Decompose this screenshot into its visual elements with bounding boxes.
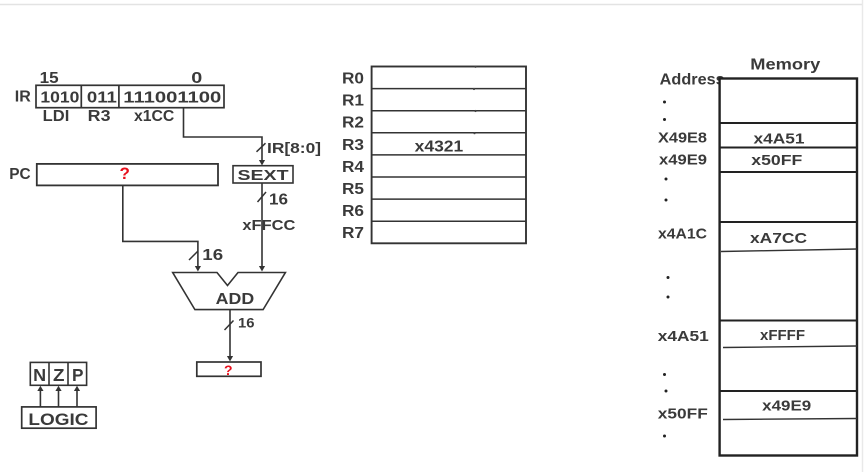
svg-text:R3: R3	[342, 137, 364, 154]
svg-text:R2: R2	[342, 115, 364, 132]
svg-text:X49E8: X49E8	[658, 130, 707, 147]
svg-text:P: P	[72, 365, 84, 385]
svg-text:16: 16	[202, 247, 223, 264]
svg-text:ADD: ADD	[216, 291, 255, 308]
svg-text:xFFCC: xFFCC	[242, 217, 295, 234]
svg-text:?: ?	[120, 164, 130, 183]
svg-text:?: ?	[224, 362, 233, 378]
svg-text:x4A51: x4A51	[658, 328, 709, 345]
svg-text:R1: R1	[342, 93, 364, 110]
svg-text:Memory: Memory	[750, 57, 820, 74]
svg-text:x50FF: x50FF	[751, 152, 802, 169]
svg-text:111001100: 111001100	[123, 90, 221, 107]
svg-text:N: N	[33, 365, 46, 385]
svg-text:IR: IR	[15, 89, 31, 106]
svg-text:SEXT: SEXT	[238, 168, 289, 184]
svg-text:x4321: x4321	[415, 139, 464, 156]
svg-text:Address: Address	[660, 72, 725, 89]
svg-text:0: 0	[191, 70, 202, 87]
svg-text:15: 15	[40, 70, 59, 87]
svg-text:16: 16	[238, 315, 255, 331]
svg-text:LOGIC: LOGIC	[28, 411, 88, 429]
svg-text:LDI: LDI	[43, 108, 70, 125]
svg-text:PC: PC	[9, 166, 30, 183]
svg-text:R4: R4	[342, 159, 364, 176]
svg-text:x4A51: x4A51	[754, 131, 805, 148]
svg-text:1010: 1010	[40, 90, 79, 107]
svg-text:x49E9: x49E9	[659, 152, 707, 169]
svg-text:x50FF: x50FF	[658, 406, 708, 423]
svg-text:R5: R5	[342, 181, 364, 198]
svg-text:x1CC: x1CC	[134, 108, 175, 125]
svg-text:R6: R6	[342, 203, 364, 220]
svg-text:011: 011	[87, 90, 117, 107]
svg-text:Z: Z	[53, 365, 65, 385]
svg-text:R3: R3	[88, 108, 111, 125]
svg-text:IR[8:0]: IR[8:0]	[267, 140, 321, 157]
svg-text:x49E9: x49E9	[762, 398, 811, 415]
svg-text:xA7CC: xA7CC	[750, 230, 807, 247]
svg-text:R7: R7	[342, 225, 364, 242]
svg-text:x4A1C: x4A1C	[658, 226, 707, 243]
svg-text:R0: R0	[342, 71, 364, 88]
svg-text:16: 16	[269, 192, 288, 209]
svg-text:xFFFF: xFFFF	[760, 327, 805, 344]
